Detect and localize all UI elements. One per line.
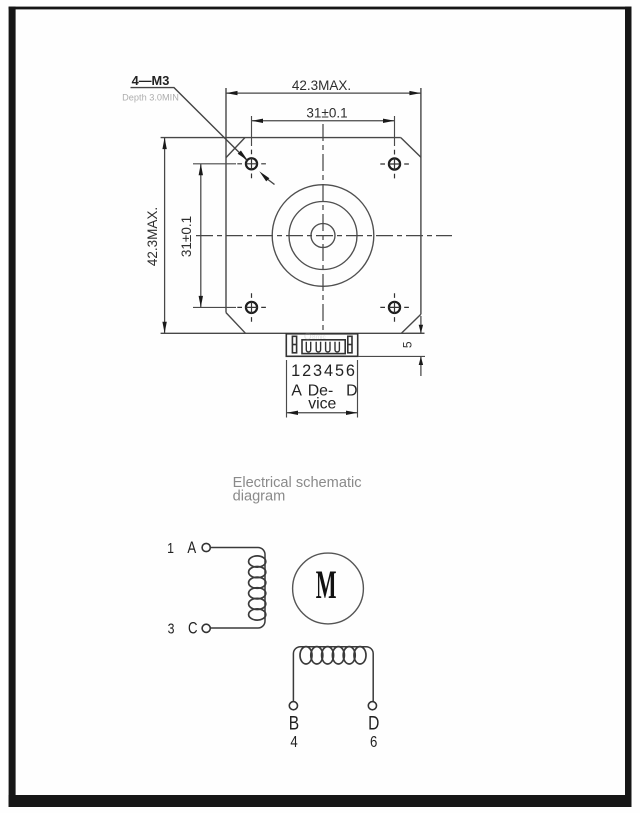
svg-text:A: A bbox=[187, 539, 196, 558]
wire B-D with coil bbox=[293, 647, 373, 702]
terminal C bbox=[202, 624, 210, 632]
terminal B bbox=[289, 702, 297, 710]
vertical centerline bbox=[322, 124, 324, 334]
dimension 31 top bbox=[252, 105, 395, 146]
svg-text:5: 5 bbox=[400, 341, 414, 348]
shaft circle bbox=[311, 224, 335, 248]
dimension 42.3MAX left bbox=[145, 138, 167, 334]
dimension 5 connector height bbox=[358, 316, 425, 376]
svg-text:A: A bbox=[291, 382, 302, 399]
svg-text:D: D bbox=[368, 712, 379, 734]
svg-text:6: 6 bbox=[370, 734, 377, 751]
svg-text:D: D bbox=[346, 382, 357, 399]
motor body outline bbox=[161, 88, 425, 333]
coil A-C winding bbox=[249, 556, 266, 620]
coil B-D winding bbox=[300, 647, 366, 664]
svg-text:31±0.1: 31±0.1 bbox=[306, 105, 347, 120]
svg-text:42.3MAX.: 42.3MAX. bbox=[145, 207, 160, 266]
svg-text:123456: 123456 bbox=[291, 362, 357, 380]
dimension 42.3MAX top bbox=[226, 78, 421, 95]
svg-text:4: 4 bbox=[290, 734, 297, 751]
motor circle bbox=[293, 553, 364, 624]
connector watermark bbox=[305, 333, 327, 341]
connector width dimension bbox=[287, 360, 358, 418]
svg-text:diagram: diagram bbox=[233, 488, 286, 504]
svg-text:1: 1 bbox=[167, 540, 174, 556]
mounting hole top-right bbox=[380, 150, 409, 179]
svg-text:4—M3: 4—M3 bbox=[132, 73, 170, 88]
svg-text:B: B bbox=[289, 712, 299, 734]
svg-text:Depth 3.0MIN: Depth 3.0MIN bbox=[122, 92, 179, 102]
terminal A bbox=[202, 543, 210, 551]
svg-text:M: M bbox=[316, 562, 337, 607]
pilot circle middle bbox=[289, 202, 357, 270]
horizontal centerline bbox=[196, 235, 452, 237]
pilot circle outer bbox=[272, 185, 374, 287]
svg-text:vice: vice bbox=[308, 396, 336, 413]
svg-text:31±0.1: 31±0.1 bbox=[179, 216, 194, 257]
svg-text:8mic: 8mic bbox=[312, 334, 326, 341]
mounting hole top-left bbox=[237, 150, 266, 179]
connector slots bbox=[306, 342, 339, 352]
svg-text:42.3MAX.: 42.3MAX. bbox=[292, 78, 351, 93]
connector body bbox=[286, 334, 357, 357]
mounting hole bottom-right bbox=[380, 293, 409, 322]
mounting hole bottom-left bbox=[237, 293, 266, 322]
svg-text:3: 3 bbox=[168, 621, 175, 637]
svg-text:C: C bbox=[188, 619, 198, 638]
leader line 4-M3 bbox=[131, 88, 275, 185]
wire A to coil bbox=[210, 548, 265, 629]
dimension 31 left bbox=[179, 164, 236, 308]
terminal D bbox=[368, 702, 376, 710]
